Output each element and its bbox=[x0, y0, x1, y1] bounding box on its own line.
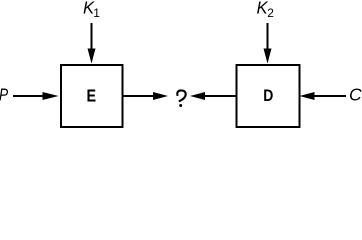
svg-text:1: 1 bbox=[93, 6, 100, 20]
box D bbox=[237, 65, 300, 127]
svg-text:2: 2 bbox=[267, 6, 274, 20]
svg-text:P: P bbox=[0, 86, 9, 105]
wire P arrow bbox=[13, 95, 44, 97]
svg-text:E: E bbox=[86, 86, 96, 106]
wire K1 arrow bbox=[91, 23, 93, 50]
box E bbox=[61, 65, 123, 127]
wire C arrow bbox=[314, 95, 346, 97]
svg-text:C: C bbox=[349, 85, 362, 105]
node question mark bbox=[177, 90, 185, 101]
svg-text:D: D bbox=[263, 87, 273, 106]
wire K2 arrow bbox=[267, 23, 269, 50]
wire D output arrow bbox=[205, 95, 236, 97]
wire E output arrow bbox=[123, 95, 155, 97]
